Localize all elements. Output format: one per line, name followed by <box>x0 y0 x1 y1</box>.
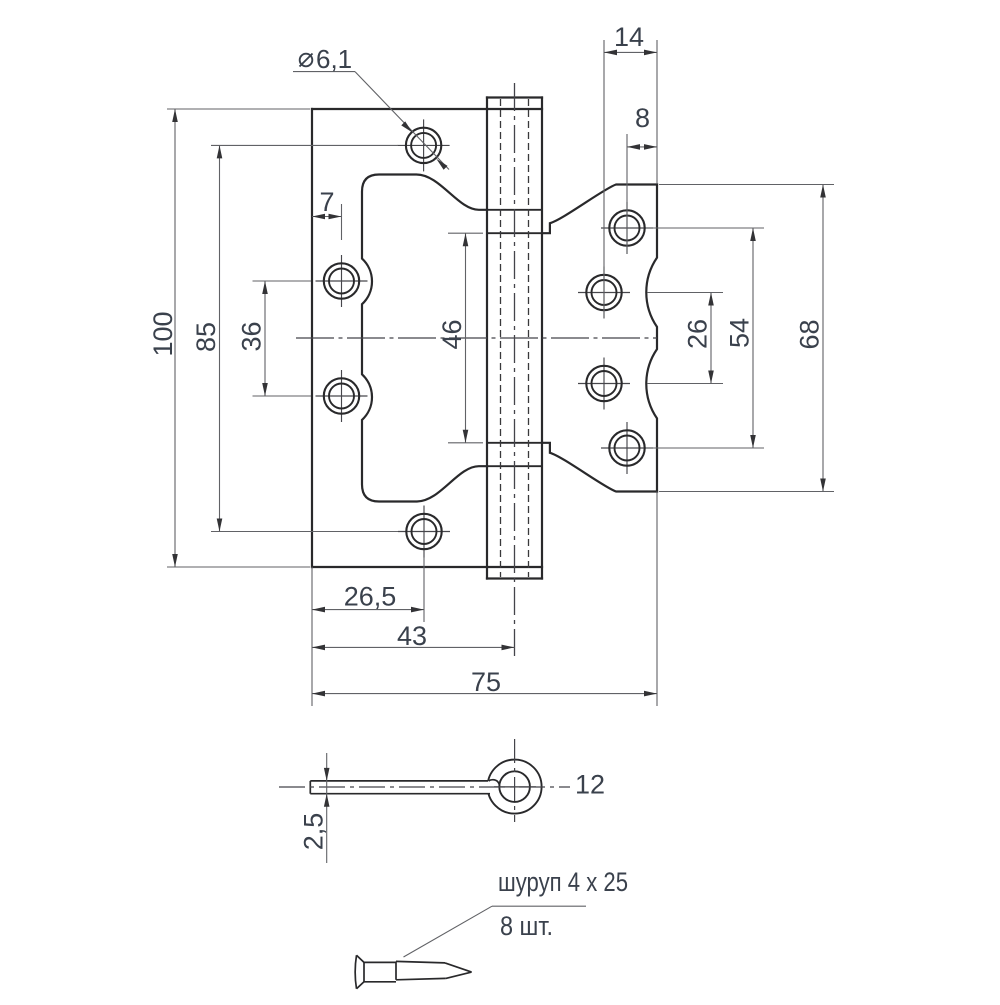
svg-text:шуруп 4 x 25: шуруп 4 x 25 <box>498 867 628 897</box>
svg-text:8 шт.: 8 шт. <box>500 911 553 941</box>
dimension 85 <box>211 145 398 531</box>
svg-text:2,5: 2,5 <box>299 813 329 851</box>
side view horizontal centerline <box>279 786 570 788</box>
dimension 100 <box>167 109 310 567</box>
hole H7 <box>578 358 630 410</box>
svg-text:68: 68 <box>795 319 825 349</box>
dimension dia 6,1 leader <box>293 72 449 170</box>
hole H5 <box>601 202 653 254</box>
dimension 26 <box>648 293 724 384</box>
svg-text:75: 75 <box>471 667 501 697</box>
dimension 8 <box>627 134 657 254</box>
side view outer barrel circle <box>488 760 542 814</box>
hole H8 <box>601 422 653 474</box>
dimension 7 <box>312 204 342 240</box>
svg-text:14: 14 <box>614 22 644 52</box>
svg-text:43: 43 <box>397 621 427 651</box>
svg-text:54: 54 <box>725 318 755 348</box>
dimension 36 <box>253 281 312 396</box>
dia symbol <box>300 54 313 67</box>
svg-text:46: 46 <box>437 319 467 349</box>
dimension 46 <box>448 233 483 443</box>
hole H3 <box>316 370 368 422</box>
svg-text:36: 36 <box>237 321 267 351</box>
hole H2 <box>316 255 368 307</box>
side view curl hook <box>489 780 500 787</box>
dimension 2,5 <box>326 753 328 863</box>
hole H6 <box>578 267 630 319</box>
screw drawing <box>355 955 471 989</box>
svg-text:26,5: 26,5 <box>344 582 397 612</box>
knuckle joint lines <box>487 210 542 466</box>
svg-text:85: 85 <box>191 322 221 352</box>
side view leaf plate <box>310 781 500 794</box>
svg-text:7: 7 <box>319 187 334 217</box>
dimension 54 <box>646 228 764 448</box>
dimension 26,5 <box>312 558 424 707</box>
dimension 75 <box>312 492 657 707</box>
dimension 14 <box>604 40 657 319</box>
right leaf outline <box>542 185 657 492</box>
side view circle crosshair <box>494 786 536 788</box>
hole H4 <box>398 506 450 558</box>
side view pin hole circle <box>499 771 530 802</box>
horizontal centerline <box>296 337 657 339</box>
side view vertical centerline <box>514 739 516 822</box>
hole H1 <box>398 119 450 171</box>
left leaf outline <box>312 109 542 567</box>
barrel vertical axis <box>514 83 516 656</box>
barrel (knuckle) <box>487 98 542 579</box>
svg-text:12: 12 <box>575 770 605 800</box>
dimension 68 <box>659 185 834 492</box>
svg-text:6,1: 6,1 <box>316 44 352 74</box>
svg-text:100: 100 <box>148 311 178 356</box>
screw leader line <box>404 906 587 957</box>
barrel hidden pin lines <box>501 99 529 577</box>
dimension 43 <box>312 646 515 648</box>
svg-text:8: 8 <box>635 103 650 133</box>
svg-text:26: 26 <box>683 319 713 349</box>
